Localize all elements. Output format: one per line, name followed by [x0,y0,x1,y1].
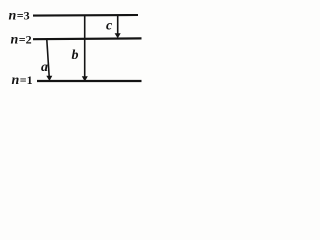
svg-text:a: a [41,60,48,75]
energy level n=2 line [33,37,142,40]
transition arrow c (n=3 to n=2) [115,16,121,39]
svg-text:c: c [106,18,113,33]
svg-text:n=1: n=1 [12,73,33,88]
transition arrow a (n=2 to n=1) [46,40,52,82]
energy level n=3 line [33,14,138,17]
transition arrow b (n=3 to n=1) [82,16,88,82]
energy level n=1 line [37,80,142,82]
svg-text:n=2: n=2 [11,33,32,48]
svg-text:b: b [72,48,79,63]
svg-text:n=3: n=3 [9,9,30,24]
